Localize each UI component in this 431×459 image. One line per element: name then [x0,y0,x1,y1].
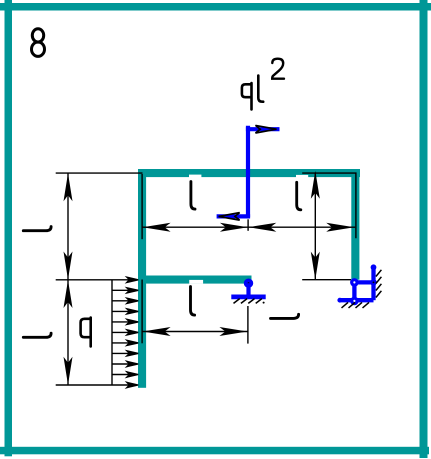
frame left column [138,169,146,388]
right support top-left pin [350,278,359,287]
top dim arrow right of first span [220,223,248,232]
top dim center tick [247,219,249,231]
right vertical dimension line [314,172,316,279]
distributed load arrows q [112,277,138,387]
label ql2 (moment value) [242,83,252,109]
border right bar [420,0,428,458]
left vertical dimension line [67,173,69,385]
left dim arrow up (top span) [64,173,73,201]
frame top beam [138,169,360,177]
top horizontal dimension line [142,226,355,228]
moment top arrowhead [256,125,277,133]
border top bar [0,3,431,11]
right support ground hatching [342,302,370,308]
lower dim arrow left [143,327,171,336]
border left bar [5,0,13,456]
left dimension extension line top (y=173) [56,172,143,174]
left dim arrow down (bottom span) [64,357,73,385]
right support left bar end knob [337,298,342,303]
moment arm vertical (blue) [246,126,250,218]
top dim arrow left end [143,223,171,232]
label l rotated (lower dimension) [271,314,299,318]
label background gap in top beam (right l) [296,175,308,178]
right support wall hatching [376,270,382,298]
label l rotated (left bottom) [23,333,51,337]
label l rotated (left top) [23,227,51,231]
label background gap in middle beam [189,280,203,284]
right dim arrow up [311,171,320,199]
middle roller support stem [246,283,250,297]
left dim arrow down (top span) [64,252,73,280]
distributed load spine [111,280,113,385]
right support link frame (blue) [340,267,374,301]
moment bottom force line (blue) [217,214,251,218]
right dim bottom extension line [302,279,351,281]
middle roller support base bar [231,295,265,300]
middle roller support hatching [234,299,262,304]
lower horizontal dimension line [142,331,247,333]
label l (first top span) [191,182,195,210]
label q (distributed load) [81,318,91,347]
problem number 8 [32,29,45,57]
border bottom bar [0,447,429,455]
left dim arrow up (bottom span) [64,280,73,308]
label background gap in top beam (left l) [189,175,201,178]
right support top-right pin [370,279,377,286]
middle roller support pin [244,279,253,288]
moment top force line (blue) [246,127,280,131]
top dim arrow right end [326,223,354,232]
extension line inside right column [302,173,356,238]
label l (lower span) [191,287,195,316]
lower dim arrow right [219,327,247,336]
left dimension extension line middle (y=279.7) [56,279,112,281]
right dim arrow down [311,252,320,280]
label l (second top span) [297,182,301,210]
extension line inside left column [141,174,143,239]
left dimension extension line bottom (y=385) [56,384,112,386]
lower dim right tick below roller [247,306,249,344]
frame middle beam [138,276,252,284]
right support upper knob [371,264,377,270]
right support bottom-left pin [350,297,359,306]
moment bottom arrowhead [219,213,240,221]
top dim arrow left of second span [248,223,276,232]
lower dim left extension inside column [141,280,143,344]
frame right column [351,169,359,280]
